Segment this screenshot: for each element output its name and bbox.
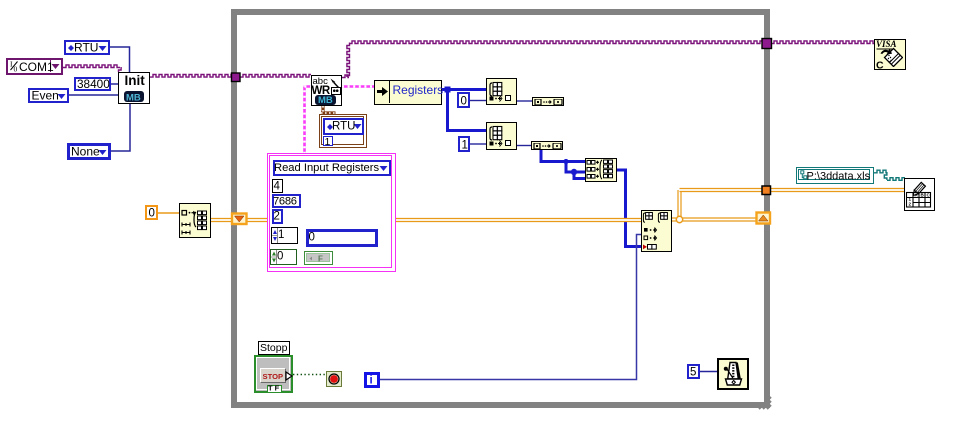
svg-text:Even: Even <box>32 89 59 103</box>
boolean array index 0 <box>270 249 297 265</box>
VI Write To Spreadsheet File <box>904 178 935 211</box>
numeric constant 1 (row index) <box>458 136 470 152</box>
wire Build Array to Insert Into Array <box>617 170 642 247</box>
svg-text:VISA: VISA <box>876 39 897 49</box>
numeric 7686 <box>272 194 301 208</box>
svg-text:1: 1 <box>325 136 331 148</box>
svg-text:2: 2 <box>274 211 280 223</box>
cluster constant Read Input Registers <box>267 153 396 272</box>
svg-text:STOP: STOP <box>263 372 284 381</box>
Index Array 1 <box>486 78 517 105</box>
svg-text:5: 5 <box>690 367 696 379</box>
Build Array <box>585 158 617 182</box>
svg-text:0: 0 <box>461 96 467 108</box>
tunnel VISA right <box>762 39 772 49</box>
shift register left <box>232 214 247 225</box>
svg-text:None: None <box>71 145 100 159</box>
wire RTU to Init <box>110 47 130 72</box>
boolean array element (dimmed) <box>304 251 333 265</box>
svg-text:T F: T F <box>268 384 280 393</box>
shift register right <box>757 213 771 224</box>
wire VISA right tunnel to VISA Close <box>771 41 874 44</box>
wire junction up to orange tunnel <box>677 190 681 217</box>
svg-text:MB: MB <box>318 95 333 106</box>
svg-text:1: 1 <box>462 140 468 152</box>
cluster constant RTU/1 <box>319 114 367 148</box>
wire 5 to Wait <box>700 371 718 373</box>
Index Array 2 <box>486 122 517 150</box>
wire Stopp button to loop condition <box>293 374 326 376</box>
wire 0 to Index Array 1 index <box>470 100 486 102</box>
svg-text:1: 1 <box>278 229 284 241</box>
VI Wait Until Next ms Multiple (metronome) <box>717 358 749 390</box>
svg-text:C: C <box>876 60 884 72</box>
while loop border <box>231 9 770 408</box>
numeric constant 0 (DBL) <box>145 205 158 220</box>
Insert Into Array <box>641 210 672 252</box>
VISA resource constant COM1 <box>6 58 63 75</box>
wire VISA left tunnel to WR <box>240 75 311 78</box>
array index 1 <box>271 227 298 244</box>
array element 0 <box>306 229 378 247</box>
enum constant Even <box>28 88 69 103</box>
svg-text:Read Input Registers: Read Input Registers <box>274 162 380 174</box>
svg-text:Registers: Registers <box>393 83 444 97</box>
wire i to Insert Into Array index <box>380 235 642 380</box>
boolean terminal Stopp <box>254 355 293 393</box>
svg-text:7686: 7686 <box>273 196 297 208</box>
wire 38400 to Init <box>110 83 118 85</box>
tunnel orange data out <box>762 186 771 195</box>
converter node 2 <box>531 141 563 150</box>
label Stopp <box>258 341 290 355</box>
converter node 1 <box>532 97 564 106</box>
wire 1 to Index Array 2 index <box>470 143 486 145</box>
wire path constant to Write To Spreadsheet <box>874 170 905 180</box>
wire command cluster WR to Registers local <box>342 85 374 88</box>
Initialize Array <box>179 203 211 238</box>
wire Insert Into Array output to junction circle <box>672 217 676 221</box>
numeric constant 38400 <box>74 77 111 91</box>
numeric 2 <box>272 209 283 224</box>
VI Init MB <box>118 72 150 104</box>
numeric 4 <box>272 179 283 193</box>
svg-text:38400: 38400 <box>77 77 110 91</box>
wire Index Array 2 to converter 2 <box>517 145 531 147</box>
svg-text:Stopp: Stopp <box>260 342 288 354</box>
wire MB session WR to RTU cluster <box>321 106 336 113</box>
wire orange tunnel to Write To Spreadsheet <box>771 188 905 192</box>
svg-text:0: 0 <box>309 232 315 244</box>
wire Index Array 1 to converter 1 <box>517 100 533 102</box>
svg-text:COM1: COM1 <box>19 60 54 74</box>
wire Even to Init <box>68 94 118 96</box>
wire VISA Init to left tunnel <box>150 75 232 78</box>
svg-text:0: 0 <box>149 208 155 220</box>
wire 0 constant to Initialize Array <box>158 212 179 214</box>
wire None to Init <box>110 104 130 152</box>
svg-text:RTU: RTU <box>74 41 98 55</box>
wire branch down to Index Array 2 <box>448 90 487 131</box>
local variable Registers <box>374 80 442 105</box>
svg-text:MB: MB <box>126 93 141 104</box>
enum constant None <box>67 143 111 160</box>
wire converter 2 to Build Array inputs <box>541 150 586 162</box>
junction circle <box>676 216 682 222</box>
wire Registers local to Index Array 1 <box>442 88 486 91</box>
while loop resize grip <box>758 396 772 410</box>
numeric constant 0 (row index) <box>457 92 470 108</box>
numeric constant 5 <box>687 364 700 379</box>
svg-text:0: 0 <box>277 251 283 263</box>
VI WR MB (Modbus write) <box>311 75 342 106</box>
enum Read Input Registers <box>273 160 391 176</box>
svg-text:4: 4 <box>274 181 281 193</box>
wire command cluster WR to Read Input Registers cluster <box>305 87 313 155</box>
wire left shift register to Insert Into Array (passes under cluster) <box>247 218 642 222</box>
svg-text:P:\3ddata.xls: P:\3ddata.xls <box>807 170 871 182</box>
tunnel VISA left <box>232 73 241 82</box>
wire VISA COM1 to Init <box>63 65 121 72</box>
loop condition terminal <box>326 371 342 387</box>
VISA Close <box>874 39 906 70</box>
svg-text:i: i <box>370 375 373 387</box>
svg-text:RTU: RTU <box>332 121 355 133</box>
path constant P:\3ddata.xls <box>796 167 874 184</box>
svg-text:Init: Init <box>125 73 146 88</box>
enum constant RTU <box>64 40 110 55</box>
iteration terminal i <box>364 372 380 388</box>
wire junction to right shift register <box>683 217 757 221</box>
wire Initialize Array to left shift register <box>211 218 233 222</box>
wire VISA WR to right tunnel <box>342 41 762 78</box>
